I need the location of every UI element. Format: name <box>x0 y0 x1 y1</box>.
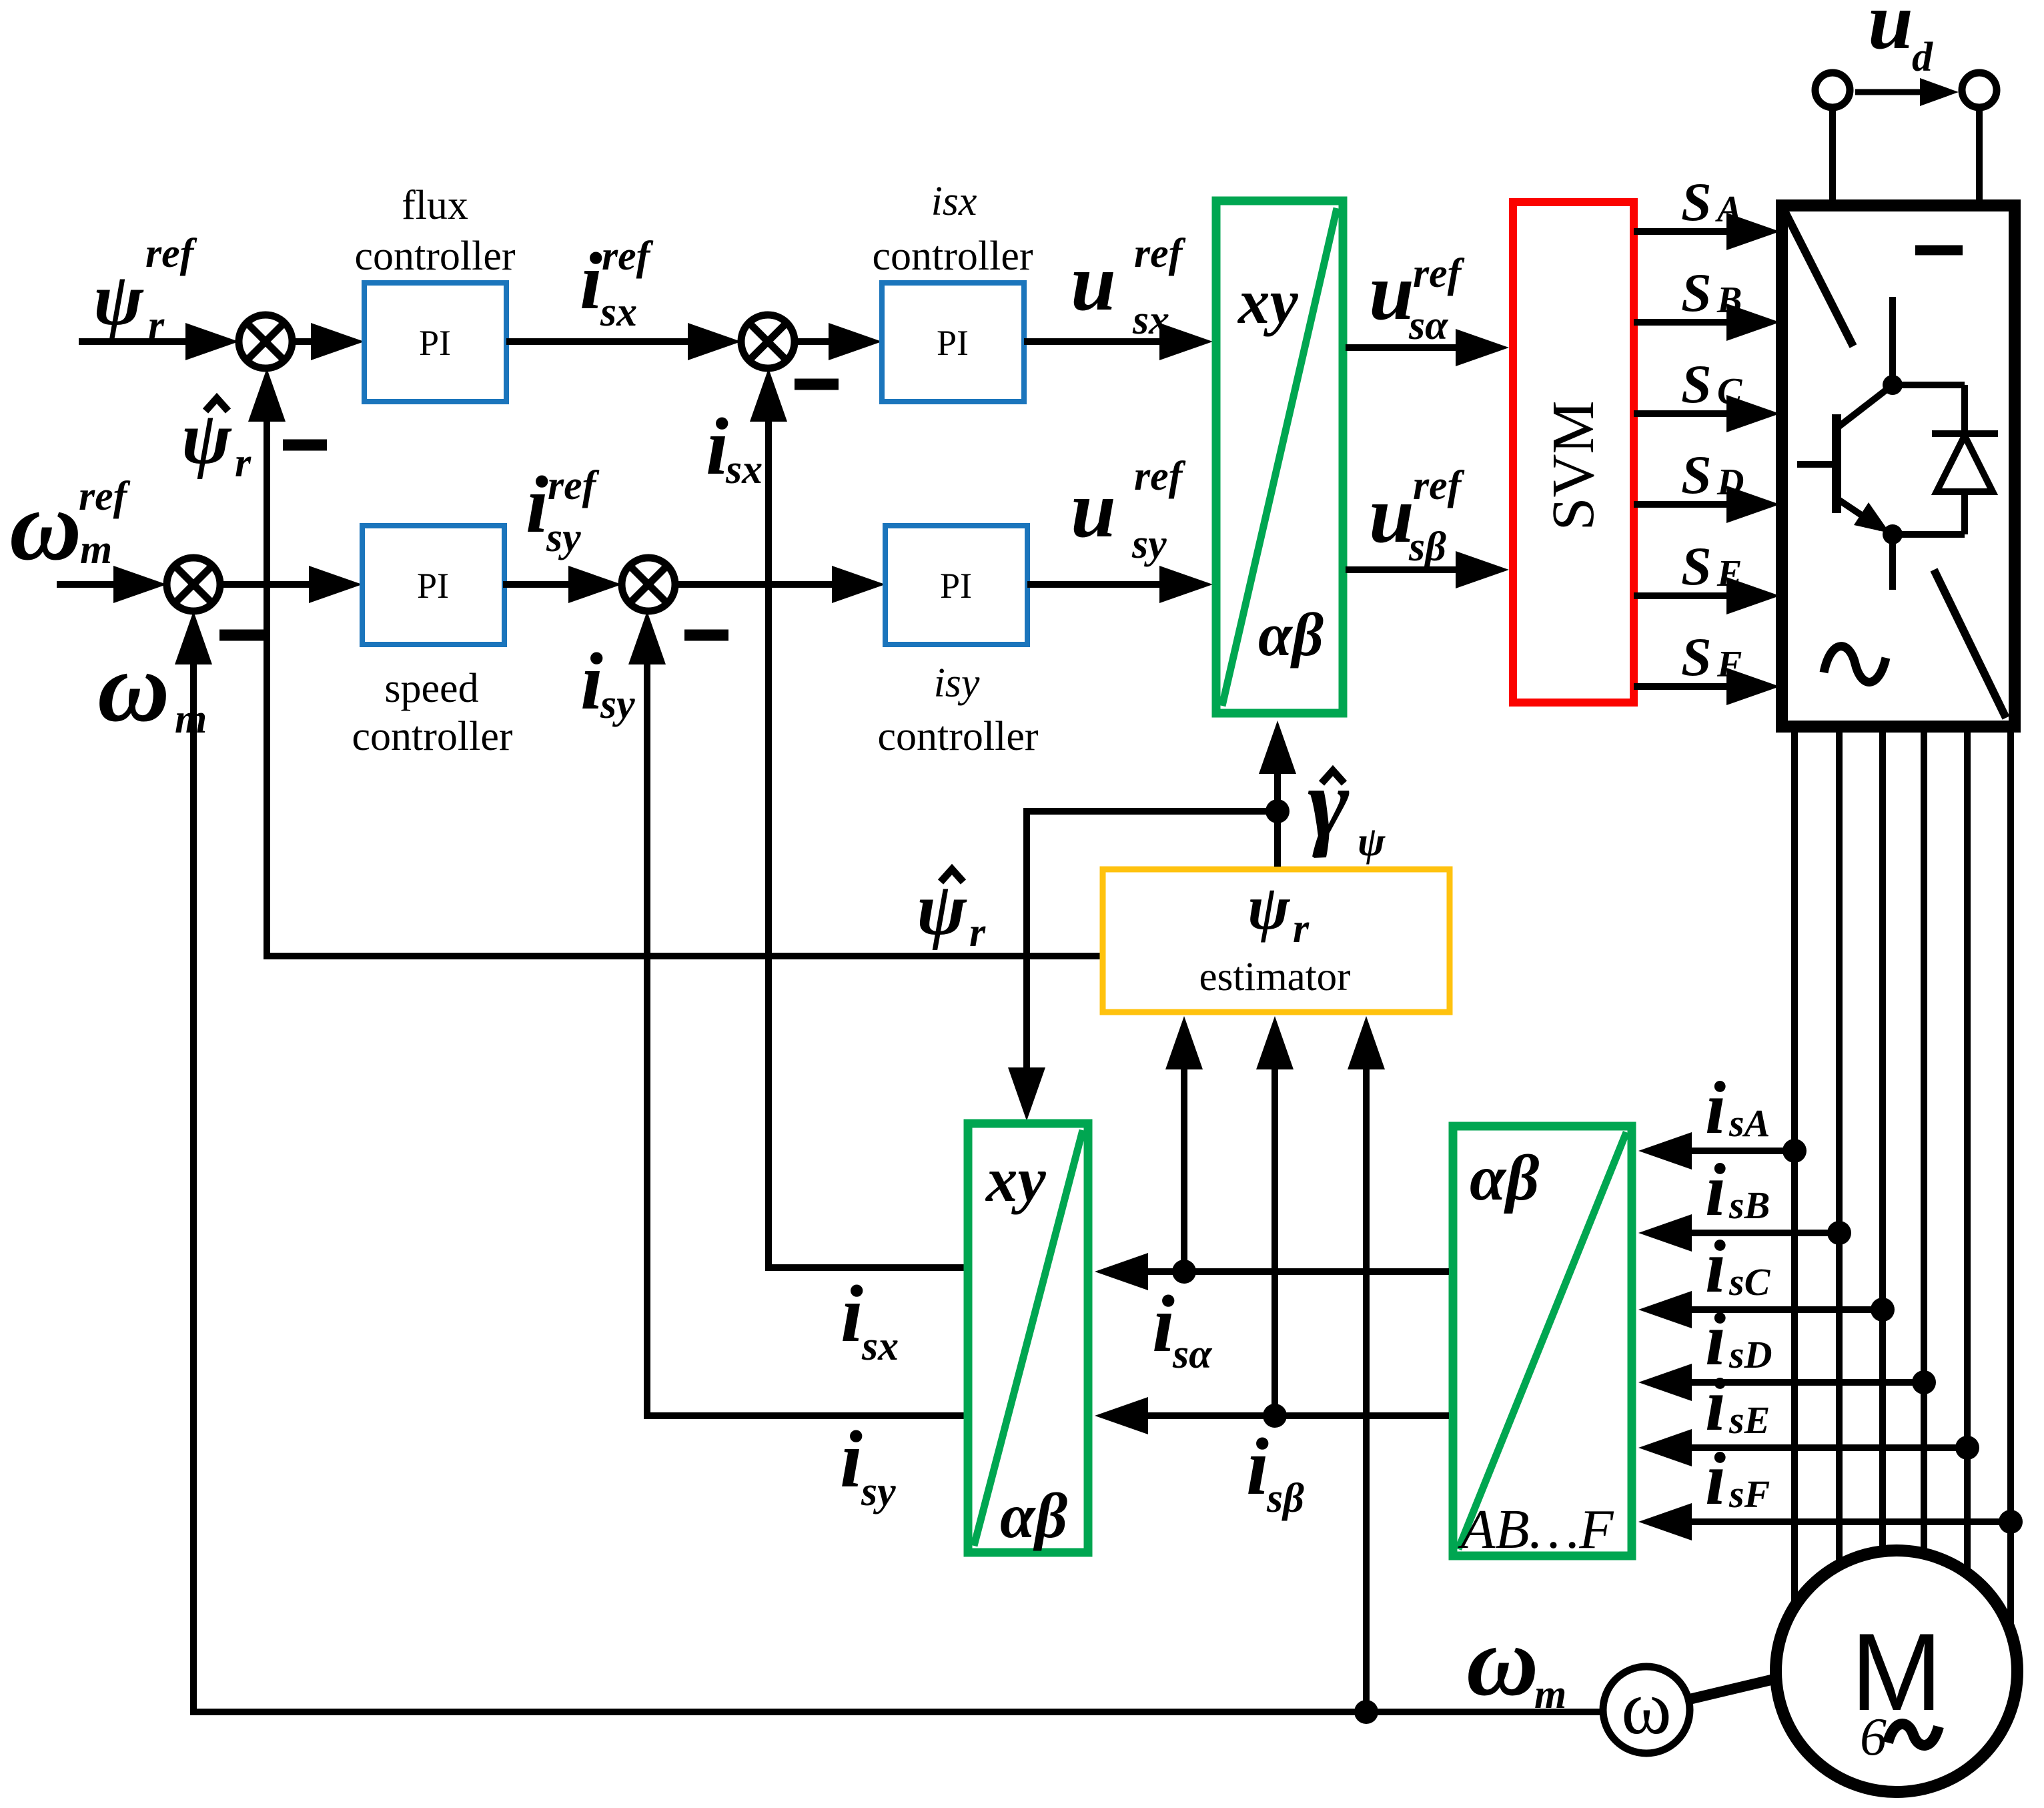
svg-text:i: i <box>580 636 603 727</box>
svg-text:i: i <box>1705 1149 1726 1232</box>
svg-text:u: u <box>1369 470 1414 560</box>
svg-text:i: i <box>1705 1226 1726 1308</box>
svg-text:PI: PI <box>419 323 451 363</box>
svg-text:i: i <box>1705 1364 1726 1446</box>
svg-text:r: r <box>235 440 251 486</box>
svg-text:αβ: αβ <box>1470 1142 1539 1214</box>
svg-text:ref: ref <box>548 463 600 508</box>
svg-text:isy: isy <box>934 660 980 706</box>
svg-text:i: i <box>840 1414 863 1504</box>
svg-text:i: i <box>526 460 548 550</box>
svg-text:sA: sA <box>1728 1101 1770 1145</box>
svg-text:S: S <box>1681 262 1712 323</box>
svg-text:sy: sy <box>1131 522 1167 567</box>
svg-text:controller: controller <box>354 234 515 279</box>
svg-text:6: 6 <box>1860 1708 1887 1767</box>
svg-text:u: u <box>1868 0 1913 66</box>
svg-text:controller: controller <box>877 714 1038 759</box>
svg-text:sx: sx <box>725 447 762 492</box>
svg-text:sy: sy <box>546 515 581 560</box>
svg-text:u: u <box>1071 238 1116 328</box>
svg-text:i: i <box>841 1269 863 1359</box>
svg-text:D: D <box>1716 462 1744 503</box>
svg-text:r: r <box>1293 906 1310 951</box>
svg-text:ω: ω <box>1621 1665 1672 1750</box>
svg-text:m: m <box>175 697 207 742</box>
svg-text:sx: sx <box>600 290 637 335</box>
svg-text:ref: ref <box>79 474 131 519</box>
svg-text:F: F <box>1716 644 1742 685</box>
svg-text:xy: xy <box>1237 266 1299 337</box>
svg-text:controller: controller <box>352 714 512 759</box>
svg-text:PI: PI <box>937 323 969 363</box>
svg-text:m: m <box>80 527 112 572</box>
svg-text:S: S <box>1681 626 1712 687</box>
svg-text:sβ: sβ <box>1408 524 1446 570</box>
svg-text:controller: controller <box>872 234 1033 279</box>
svg-text:i: i <box>580 236 602 326</box>
svg-text:αβ: αβ <box>1258 600 1324 668</box>
svg-text:isx: isx <box>931 179 977 224</box>
svg-text:r: r <box>969 910 986 955</box>
svg-text:ψ: ψ <box>1358 819 1386 865</box>
svg-text:sα: sα <box>1172 1332 1213 1377</box>
svg-text:u: u <box>1071 464 1116 554</box>
svg-text:ω: ω <box>1466 1606 1538 1717</box>
svg-text:γ: γ <box>1308 748 1350 859</box>
svg-text:S: S <box>1681 444 1712 505</box>
svg-text:ref: ref <box>602 234 654 279</box>
svg-text:i: i <box>1152 1279 1175 1369</box>
svg-text:SVM: SVM <box>1540 400 1606 530</box>
svg-text:sF: sF <box>1728 1472 1770 1516</box>
svg-text:r: r <box>148 303 165 348</box>
svg-text:sx: sx <box>861 1324 899 1369</box>
svg-text:ref: ref <box>1134 454 1186 499</box>
svg-text:E: E <box>1716 553 1742 594</box>
svg-text:ψ: ψ <box>1247 872 1291 943</box>
svg-text:ψ: ψ <box>93 258 144 341</box>
svg-text:m: m <box>1534 1672 1566 1717</box>
svg-text:sx: sx <box>1132 298 1169 343</box>
svg-text:i: i <box>1246 1422 1269 1512</box>
svg-text:sC: sC <box>1728 1260 1771 1304</box>
svg-text:u: u <box>1369 247 1414 337</box>
svg-text:estimator: estimator <box>1199 955 1351 999</box>
svg-text:xy: xy <box>985 1144 1047 1215</box>
svg-text:speed: speed <box>384 666 478 711</box>
svg-text:αβ: αβ <box>1000 1480 1068 1551</box>
svg-text:sE: sE <box>1728 1398 1770 1442</box>
svg-text:ref: ref <box>1413 463 1465 508</box>
svg-text:S: S <box>1681 171 1712 232</box>
svg-text:PI: PI <box>940 566 972 606</box>
svg-text:AB…F: AB…F <box>1458 1498 1614 1560</box>
svg-text:sy: sy <box>861 1469 896 1514</box>
svg-text:ω: ω <box>9 470 81 581</box>
svg-text:sβ: sβ <box>1266 1476 1304 1521</box>
svg-text:d: d <box>1912 35 1933 80</box>
svg-text:ref: ref <box>145 231 197 276</box>
svg-text:PI: PI <box>417 566 449 606</box>
svg-text:S: S <box>1681 536 1712 596</box>
svg-text:B: B <box>1716 280 1742 321</box>
svg-text:sy: sy <box>600 682 635 727</box>
svg-text:C: C <box>1717 371 1742 412</box>
svg-text:S: S <box>1681 354 1712 414</box>
svg-text:A: A <box>1715 189 1742 230</box>
svg-text:ref: ref <box>1413 251 1465 296</box>
svg-text:flux: flux <box>402 183 468 228</box>
svg-text:ref: ref <box>1134 231 1186 276</box>
svg-text:ω: ω <box>97 632 169 743</box>
svg-text:sD: sD <box>1728 1333 1772 1376</box>
svg-text:i: i <box>1705 1067 1726 1150</box>
svg-text:sα: sα <box>1408 303 1449 348</box>
svg-text:sB: sB <box>1728 1184 1770 1227</box>
svg-text:i: i <box>1705 1438 1726 1520</box>
svg-text:i: i <box>706 402 728 492</box>
